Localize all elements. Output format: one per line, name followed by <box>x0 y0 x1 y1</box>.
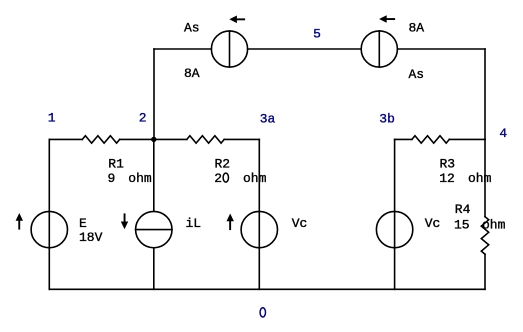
svg-text:R3: R3 <box>440 157 456 172</box>
current source As (left) <box>211 31 247 67</box>
svg-text:As: As <box>184 21 200 36</box>
svg-text:2: 2 <box>214 171 222 186</box>
wire: R2 to node 3a corner <box>224 138 259 140</box>
svg-text:8A: 8A <box>409 21 425 36</box>
current source iL <box>136 211 172 247</box>
node 2 junction dot <box>151 137 156 142</box>
svg-text:ohm: ohm <box>243 171 267 186</box>
arrow: E source polarity (up) <box>16 213 23 230</box>
wire: R3 to node 4 <box>449 138 485 140</box>
wire: iL to bottom <box>153 248 155 289</box>
svg-text:8A: 8A <box>184 66 200 81</box>
wire: node 3a down to bottom <box>258 139 260 289</box>
arrow: iL source direction (down) <box>121 213 128 229</box>
wire: main row node1 to R1 <box>49 138 82 140</box>
svg-text:4: 4 <box>499 126 507 141</box>
svg-text:ohm: ohm <box>482 217 506 232</box>
node 0 <box>260 308 265 317</box>
svg-text:2: 2 <box>139 111 147 126</box>
resistor R4 <box>481 217 488 255</box>
wire: node 2 down to iL <box>153 139 155 211</box>
wire: right top source to node 4 rail <box>397 48 485 50</box>
wire: node 2 riser <box>153 49 155 139</box>
wire: bottom rail node 0 <box>49 288 485 290</box>
wire: R1 to node 2 and on to R2 <box>120 138 187 140</box>
svg-text:R1: R1 <box>108 157 124 172</box>
wire: node 3b down to bottom <box>394 139 396 289</box>
arrow: current direction As right source <box>379 15 395 23</box>
svg-text:15: 15 <box>454 217 470 232</box>
svg-text:E: E <box>79 216 87 231</box>
wire: between top sources (node 5) <box>248 48 362 50</box>
svg-text:ohm: ohm <box>468 171 492 186</box>
resistor R2 <box>187 136 224 143</box>
svg-text:R4: R4 <box>455 202 471 217</box>
svg-text:R2: R2 <box>215 157 231 172</box>
wire: left rail node 1 down to bottom <box>48 139 50 289</box>
svg-text:5: 5 <box>313 26 321 41</box>
svg-text:Vc: Vc <box>292 216 308 231</box>
svg-text:3b: 3b <box>379 111 395 126</box>
current source As (right) <box>361 31 397 67</box>
wire: node 4 down to R4 <box>484 139 486 216</box>
voltage source Vc (node 3a) <box>241 211 277 247</box>
svg-text:ohm: ohm <box>128 171 152 186</box>
svg-text:1: 1 <box>48 111 56 126</box>
wire: node 3b to R3 <box>395 138 412 140</box>
svg-text:3a: 3a <box>260 111 276 126</box>
wire: top left to source As <box>154 48 211 50</box>
voltage source Vc (node 3b) <box>376 211 412 247</box>
arrow: current direction As left source <box>229 16 245 24</box>
arrow: Vc source polarity (up) <box>227 214 234 231</box>
svg-text:iL: iL <box>186 216 202 231</box>
wire: R4 to bottom <box>484 254 486 289</box>
resistor R3 <box>412 136 449 143</box>
svg-text:Vc: Vc <box>425 216 441 231</box>
svg-text:9: 9 <box>108 171 116 186</box>
resistor R1 <box>82 136 119 143</box>
svg-text:As: As <box>409 67 425 82</box>
svg-text:18V: 18V <box>79 230 103 245</box>
wire: right rail node 5 side down to node 4 <box>484 49 486 139</box>
voltage source E 18V <box>31 211 67 247</box>
svg-text:12: 12 <box>439 171 455 186</box>
